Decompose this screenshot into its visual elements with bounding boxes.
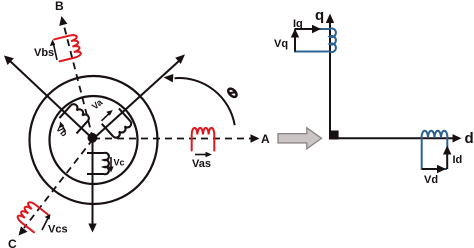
wire: up-left solid winding axis arrow [10, 61, 93, 139]
coil Vas (red, on A axis) [192, 128, 215, 151]
winding Va (inner, up-right) [102, 108, 133, 139]
voltage Vd arrow [422, 168, 439, 170]
node center dot [88, 133, 98, 143]
svg-text:Vq: Vq [274, 38, 288, 50]
coil Vbs (red, on B axis) [54, 34, 81, 61]
q axis [329, 21, 331, 131]
node A arrowhead [251, 134, 260, 142]
svg-text:q: q [315, 7, 324, 24]
dq origin square [329, 131, 339, 140]
svg-text:Vbs: Vbs [34, 47, 54, 59]
node C arrowhead [19, 227, 28, 236]
wire: B axis dashed [64, 24, 94, 139]
wire: down solid winding axis arrow [92, 139, 94, 224]
wire: A axis dashed [93, 138, 251, 140]
svg-text:Vd: Vd [424, 174, 438, 186]
coil q (blue) [295, 28, 336, 52]
wire: C axis dashed [24, 139, 93, 228]
outer circle (stator) [30, 76, 158, 204]
svg-text:d: d [465, 130, 474, 147]
coil d (blue) [422, 131, 448, 169]
svg-text:C: C [8, 237, 17, 248]
label Vbs with arrow [54, 44, 58, 60]
coil Vcs (red, on C axis) [16, 201, 48, 233]
current Id arrow [446, 153, 448, 169]
d axis [338, 137, 454, 139]
svg-text:Vas: Vas [192, 158, 211, 170]
label Vas with arrow [195, 154, 207, 156]
svg-text:Id: Id [453, 154, 463, 166]
transform block arrow (gray) [278, 128, 322, 149]
theta label [227, 87, 238, 98]
winding Vb (inner, up-left) [59, 103, 90, 134]
theta arc [175, 78, 235, 125]
current Iq arrow [295, 28, 315, 30]
winding Vc (inner, down) [87, 153, 109, 174]
svg-text:Vc: Vc [114, 158, 125, 168]
svg-text:Iq: Iq [293, 18, 303, 30]
inner circle (rotor) [50, 96, 138, 184]
svg-text:B: B [55, 0, 64, 13]
voltage Vq arrow [294, 35, 296, 52]
label Vcs with arrow [42, 218, 48, 230]
node B arrowhead [59, 16, 67, 26]
svg-text:Va: Va [90, 96, 105, 111]
wire: up-right solid winding axis arrow [93, 61, 180, 140]
svg-text:Vcs: Vcs [48, 224, 68, 236]
svg-text:A: A [261, 132, 270, 146]
